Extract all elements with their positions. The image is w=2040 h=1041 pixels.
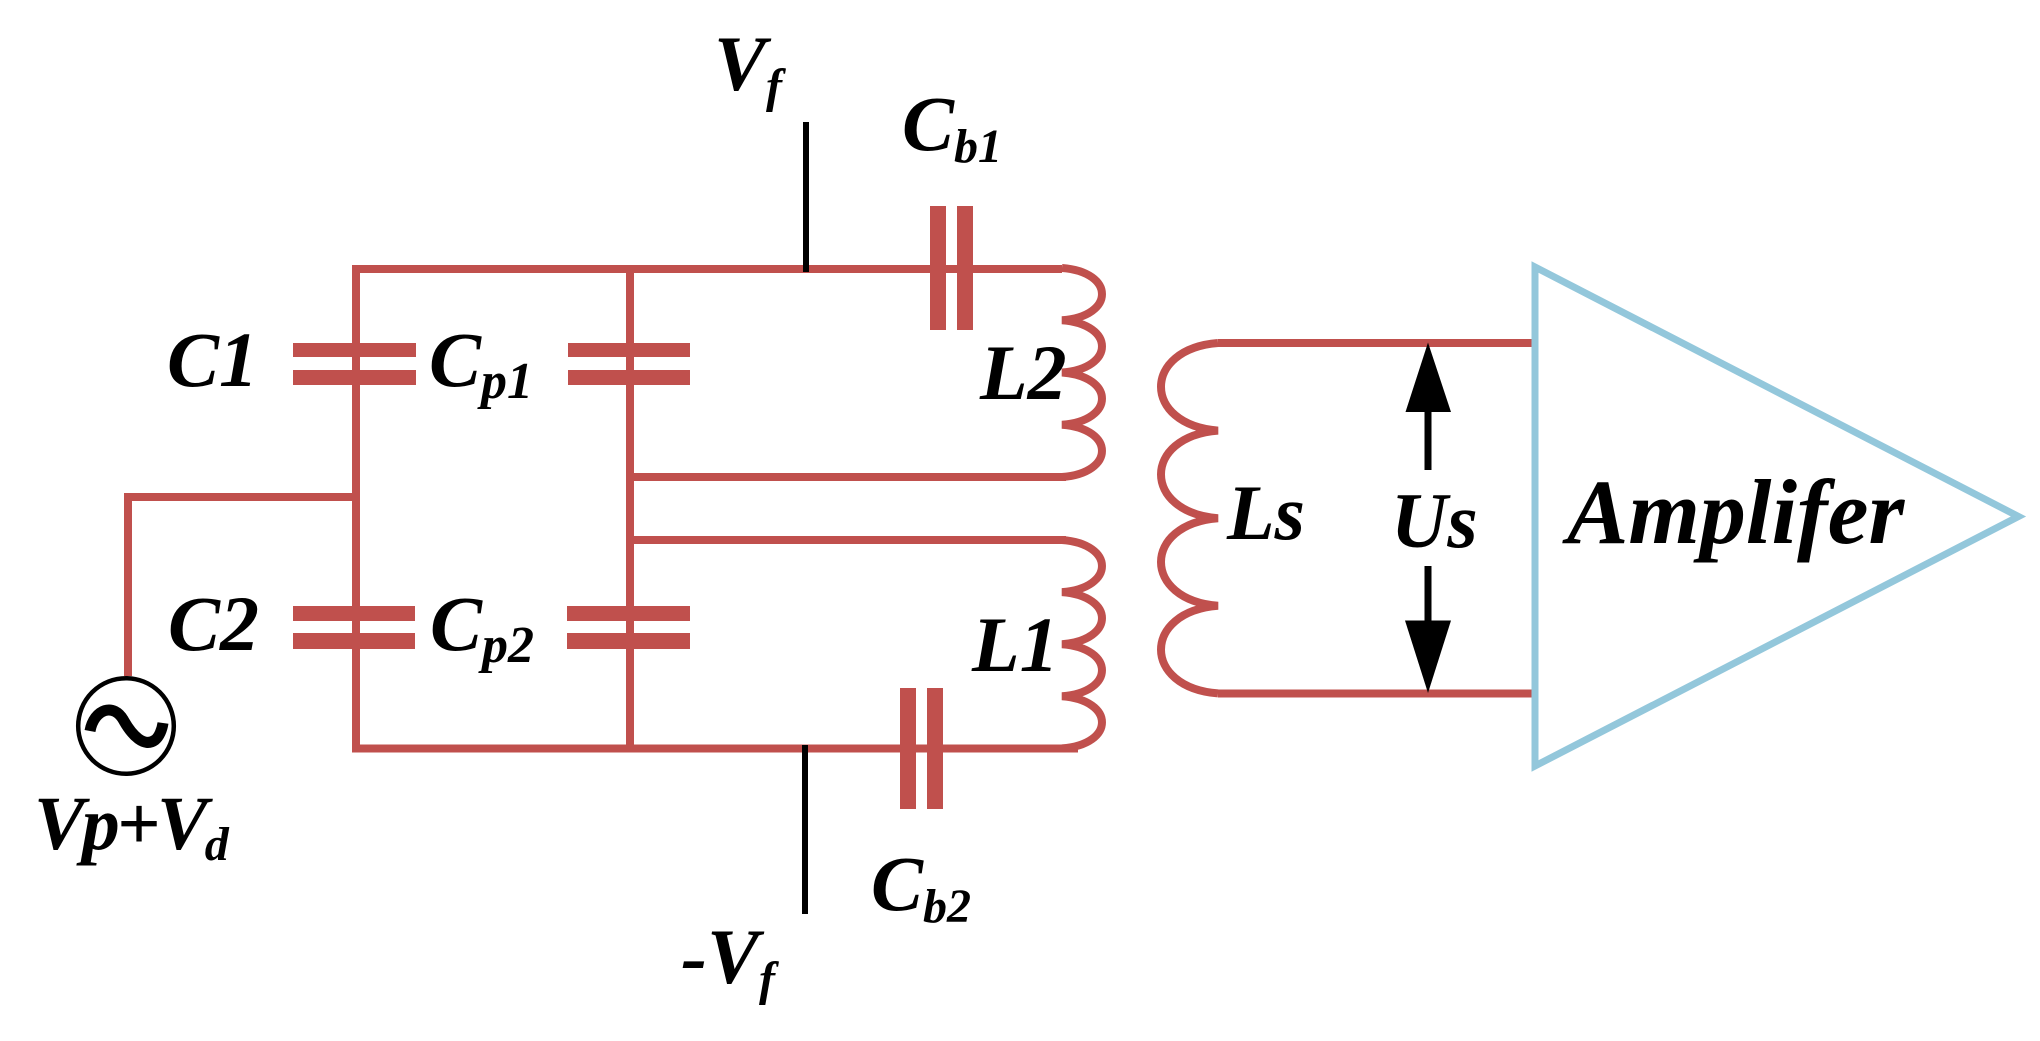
Us arrow up xyxy=(1406,343,1452,471)
capacitor C1 xyxy=(293,343,416,385)
svg-text:L2: L2 xyxy=(979,329,1067,416)
inductor L1 xyxy=(1062,540,1102,748)
svg-text:L1: L1 xyxy=(971,601,1059,688)
svg-text:Amplifer: Amplifer xyxy=(1562,461,1906,563)
source circle xyxy=(78,678,174,774)
wire Ls to amplifier top xyxy=(1218,339,1537,347)
-Vf lead xyxy=(802,745,808,914)
wire middle vertical xyxy=(626,269,634,749)
wire B (to L1 top) xyxy=(630,536,1066,544)
source sine symbol xyxy=(90,710,163,742)
inductor L2 xyxy=(1062,268,1102,477)
capacitor Cp1 xyxy=(568,343,690,385)
svg-text:Ls: Ls xyxy=(1226,469,1305,556)
svg-text:Vp+Vd: Vp+Vd xyxy=(34,782,230,871)
capacitor Cb2 xyxy=(900,688,943,809)
wire A (to L2 bottom) xyxy=(630,473,1066,481)
capacitor Cp2 xyxy=(567,606,690,649)
capacitor Cb1 xyxy=(930,206,973,330)
Vf lead xyxy=(803,122,809,272)
svg-text:C1: C1 xyxy=(167,316,258,403)
wire from source xyxy=(128,497,356,676)
inductor Ls xyxy=(1161,343,1218,693)
svg-text:C2: C2 xyxy=(168,580,259,667)
Us arrow down xyxy=(1405,566,1451,693)
svg-text:Us: Us xyxy=(1391,477,1478,564)
wire top/left/bottom mesh outline xyxy=(356,269,1078,749)
op-amp U1 amplifier triangle xyxy=(1535,267,2019,766)
capacitor C2 xyxy=(293,606,415,649)
wire Ls to amplifier bottom xyxy=(1218,690,1537,698)
